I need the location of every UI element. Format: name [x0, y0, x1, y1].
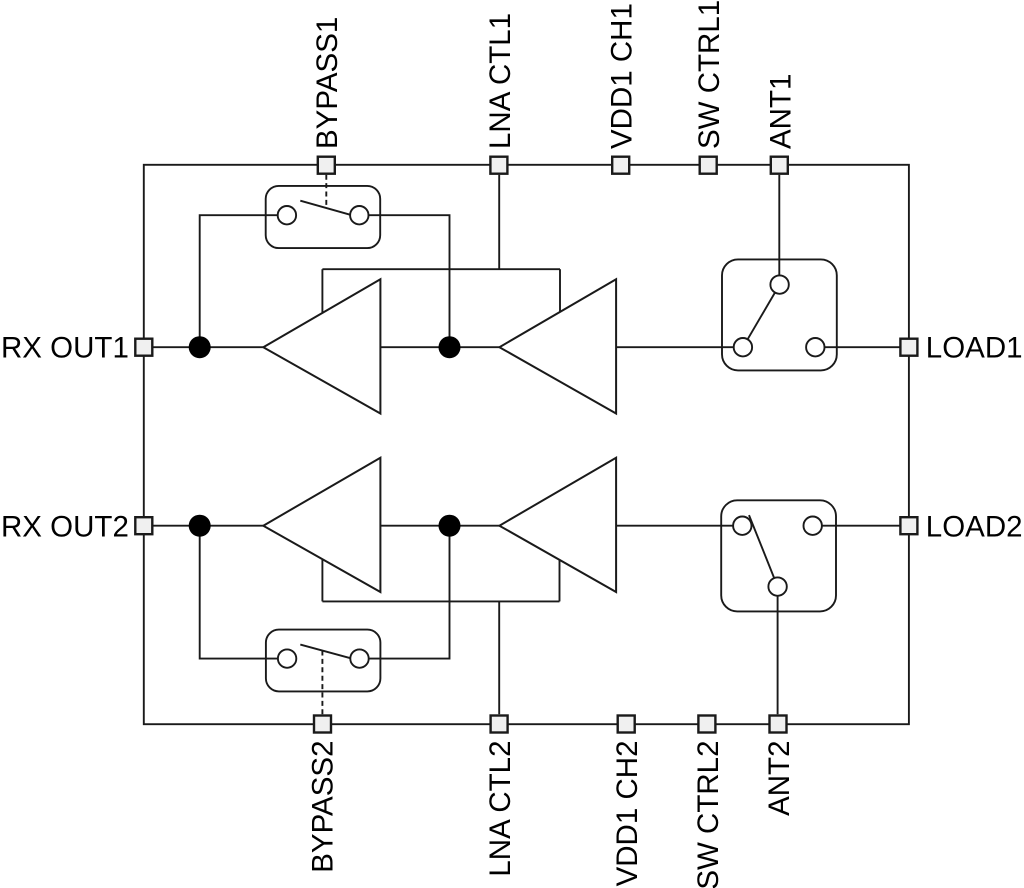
svg-text:BYPASS1: BYPASS1 — [311, 17, 344, 149]
wire bypass switch B1 right down to node B — [369, 215, 450, 347]
op-amp A3 — [263, 458, 380, 592]
wire bypass switch B2 right up to node D — [369, 526, 450, 659]
wire RX OUT1 pin to amp A1 input — [144, 346, 263, 348]
wire LNA CTL1 drop to amp A1 — [321, 269, 323, 313]
junction node D — [439, 515, 461, 537]
bypass switch B1 body — [266, 186, 381, 248]
antenna switch S1 body — [722, 259, 837, 370]
wire switch S2 common to ANT2 pin — [777, 596, 779, 715]
wire RX OUT2 pin to amp A3 input — [144, 525, 263, 527]
pin ANT2 — [770, 716, 787, 733]
bypass switch B2 body — [266, 630, 381, 692]
svg-text:LOAD2: LOAD2 — [926, 511, 1023, 544]
wire LNA CTL2 rise to amp A3 — [321, 560, 323, 602]
bypass switch B1 lever — [300, 201, 350, 215]
op-amp A1 — [263, 279, 380, 413]
pin RX OUT2 — [135, 517, 152, 534]
svg-text:ANT1: ANT1 — [764, 74, 797, 149]
wire ANT1 pin to switch S1 common — [778, 175, 780, 276]
svg-text:ANT2: ANT2 — [763, 741, 796, 816]
antenna switch S2 amp-side contact — [733, 517, 751, 535]
wire node C down to bypass switch B2 left — [200, 526, 278, 659]
svg-text:RX OUT2: RX OUT2 — [1, 511, 129, 544]
antenna switch S2 lever — [749, 515, 774, 578]
wire LNA CTL1 drop to amp A2 — [559, 269, 561, 312]
wire amp A1 output to amp A2 input — [380, 346, 499, 348]
pin BYPASS2 — [314, 716, 331, 733]
svg-text:VDD1 CH2: VDD1 CH2 — [611, 741, 644, 887]
junction node B — [439, 336, 461, 358]
svg-text:BYPASS2: BYPASS2 — [307, 741, 340, 873]
svg-text:VDD1 CH1: VDD1 CH1 — [606, 3, 639, 149]
pin LNA CTL1 — [490, 157, 507, 174]
pin VDD1 CH1 — [612, 157, 629, 174]
pin VDD1 CH2 — [618, 716, 635, 733]
wire amp A2 output to switch S1 contact — [616, 346, 734, 348]
antenna switch S1 amp-side contact — [734, 338, 752, 356]
wire LNA CTL2 pin riser — [498, 601, 500, 714]
bypass switch B2 left contact — [278, 649, 296, 667]
antenna switch S1 load-side contact — [806, 338, 824, 356]
chip boundary rectangle — [144, 165, 909, 724]
bypass switch B1 right contact — [350, 206, 368, 224]
junction node A — [189, 336, 211, 358]
pin SW CTRL2 — [698, 716, 715, 733]
antenna switch S2 common contact — [768, 577, 786, 595]
svg-text:SW CTRL1: SW CTRL1 — [693, 0, 726, 149]
antenna switch S1 lever — [748, 293, 775, 340]
svg-text:RX OUT1: RX OUT1 — [1, 331, 129, 364]
svg-text:LOAD1: LOAD1 — [926, 331, 1023, 364]
wire LNA CTL1 horizontal bus — [322, 268, 560, 270]
antenna switch S2 body — [721, 500, 836, 611]
dashed control line BYPASS1 pin to lever — [325, 175, 327, 209]
antenna switch S1 common contact — [770, 275, 788, 293]
pin LNA CTL2 — [491, 716, 508, 733]
junction node C — [189, 515, 211, 537]
pin RX OUT1 — [135, 339, 152, 356]
wire LNA CTL1 pin riser — [498, 175, 500, 270]
svg-text:LNA CTL1: LNA CTL1 — [484, 13, 517, 149]
pin LOAD1 — [900, 339, 917, 356]
bypass switch B1 left contact — [278, 206, 296, 224]
wire switch S1 contact to LOAD1 pin — [824, 346, 909, 348]
bypass switch B2 lever — [300, 645, 350, 659]
bypass switch B2 right contact — [350, 649, 368, 667]
wire amp A3 output to amp A4 input — [380, 525, 499, 527]
dashed control line BYPASS2 pin to lever — [321, 651, 323, 715]
svg-text:SW CTRL2: SW CTRL2 — [692, 741, 725, 888]
wire LNA CTL2 horizontal bus — [322, 600, 559, 602]
op-amp A4 — [499, 458, 616, 592]
wire switch S2 contact to LOAD2 pin — [822, 525, 909, 527]
pin BYPASS1 — [318, 157, 335, 174]
antenna switch S2 load-side contact — [804, 517, 822, 535]
op-amp A2 — [499, 279, 616, 413]
pin SW CTRL1 — [700, 157, 717, 174]
svg-text:LNA CTL2: LNA CTL2 — [484, 741, 517, 877]
pin LOAD2 — [900, 517, 917, 534]
wire LNA CTL2 rise to amp A4 — [559, 560, 561, 601]
wire node A up to bypass switch B1 left — [200, 215, 278, 347]
wire amp A4 output to switch S2 contact — [616, 525, 733, 527]
pin ANT1 — [771, 157, 788, 174]
